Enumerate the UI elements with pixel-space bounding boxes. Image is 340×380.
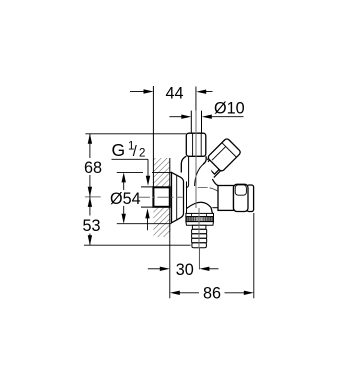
svg-text:Ø10: Ø10 — [214, 100, 245, 118]
svg-text:G: G — [112, 140, 126, 160]
svg-text:86: 86 — [203, 285, 221, 303]
svg-text:53: 53 — [83, 217, 101, 235]
svg-text:30: 30 — [176, 261, 194, 279]
svg-text:Ø54: Ø54 — [110, 190, 141, 208]
svg-text:68: 68 — [84, 159, 102, 177]
svg-text:44: 44 — [166, 85, 184, 103]
svg-text:2: 2 — [139, 147, 145, 159]
